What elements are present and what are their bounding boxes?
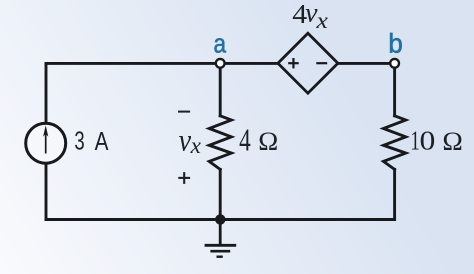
minus sign above vx label [178,111,190,113]
wire middle branch lower (R1 to bottom junction) [219,169,222,219]
svg-text:4: 4 [239,122,251,157]
svg-text:4: 4 [292,0,307,30]
ground symbol [205,219,237,256]
minus sign inside diamond [316,62,327,64]
wire bottom [46,218,395,221]
dependent voltage source diamond 4vx [278,33,338,93]
plus sign below vx label [178,172,190,184]
svg-text:a: a [214,30,227,59]
svg-text:x: x [316,8,329,34]
wire top right: dependent source to node b [338,62,395,65]
junction dot at bottom of middle branch [215,214,225,224]
resistor R1 4 ohm zigzag [209,116,231,170]
wire right branch upper (node b down to R2) [393,63,396,115]
wire left branch through current source [45,63,48,219]
svg-text:Ω: Ω [442,126,462,156]
node a terminal (open circle) [216,59,225,68]
svg-text:v: v [179,123,192,158]
current source 3A (circle with up arrow) [26,123,66,163]
wire middle branch upper (node a down to R1) [219,63,222,115]
svg-text:b: b [388,28,402,58]
svg-text:v: v [305,0,318,28]
svg-text:Ω: Ω [258,126,278,156]
svg-text:0: 0 [420,126,436,156]
wire top left: corner to node a to dependent source [46,62,278,65]
plus sign inside diamond [288,58,299,68]
node b terminal (open circle) [390,59,399,68]
svg-text:1: 1 [410,126,419,156]
resistor R2 10 ohm zigzag [384,116,406,170]
wire right branch lower (R2 to bottom right corner) [393,169,396,219]
svg-text:x: x [190,133,202,159]
svg-text:A: A [95,127,109,156]
svg-text:3: 3 [74,127,84,156]
